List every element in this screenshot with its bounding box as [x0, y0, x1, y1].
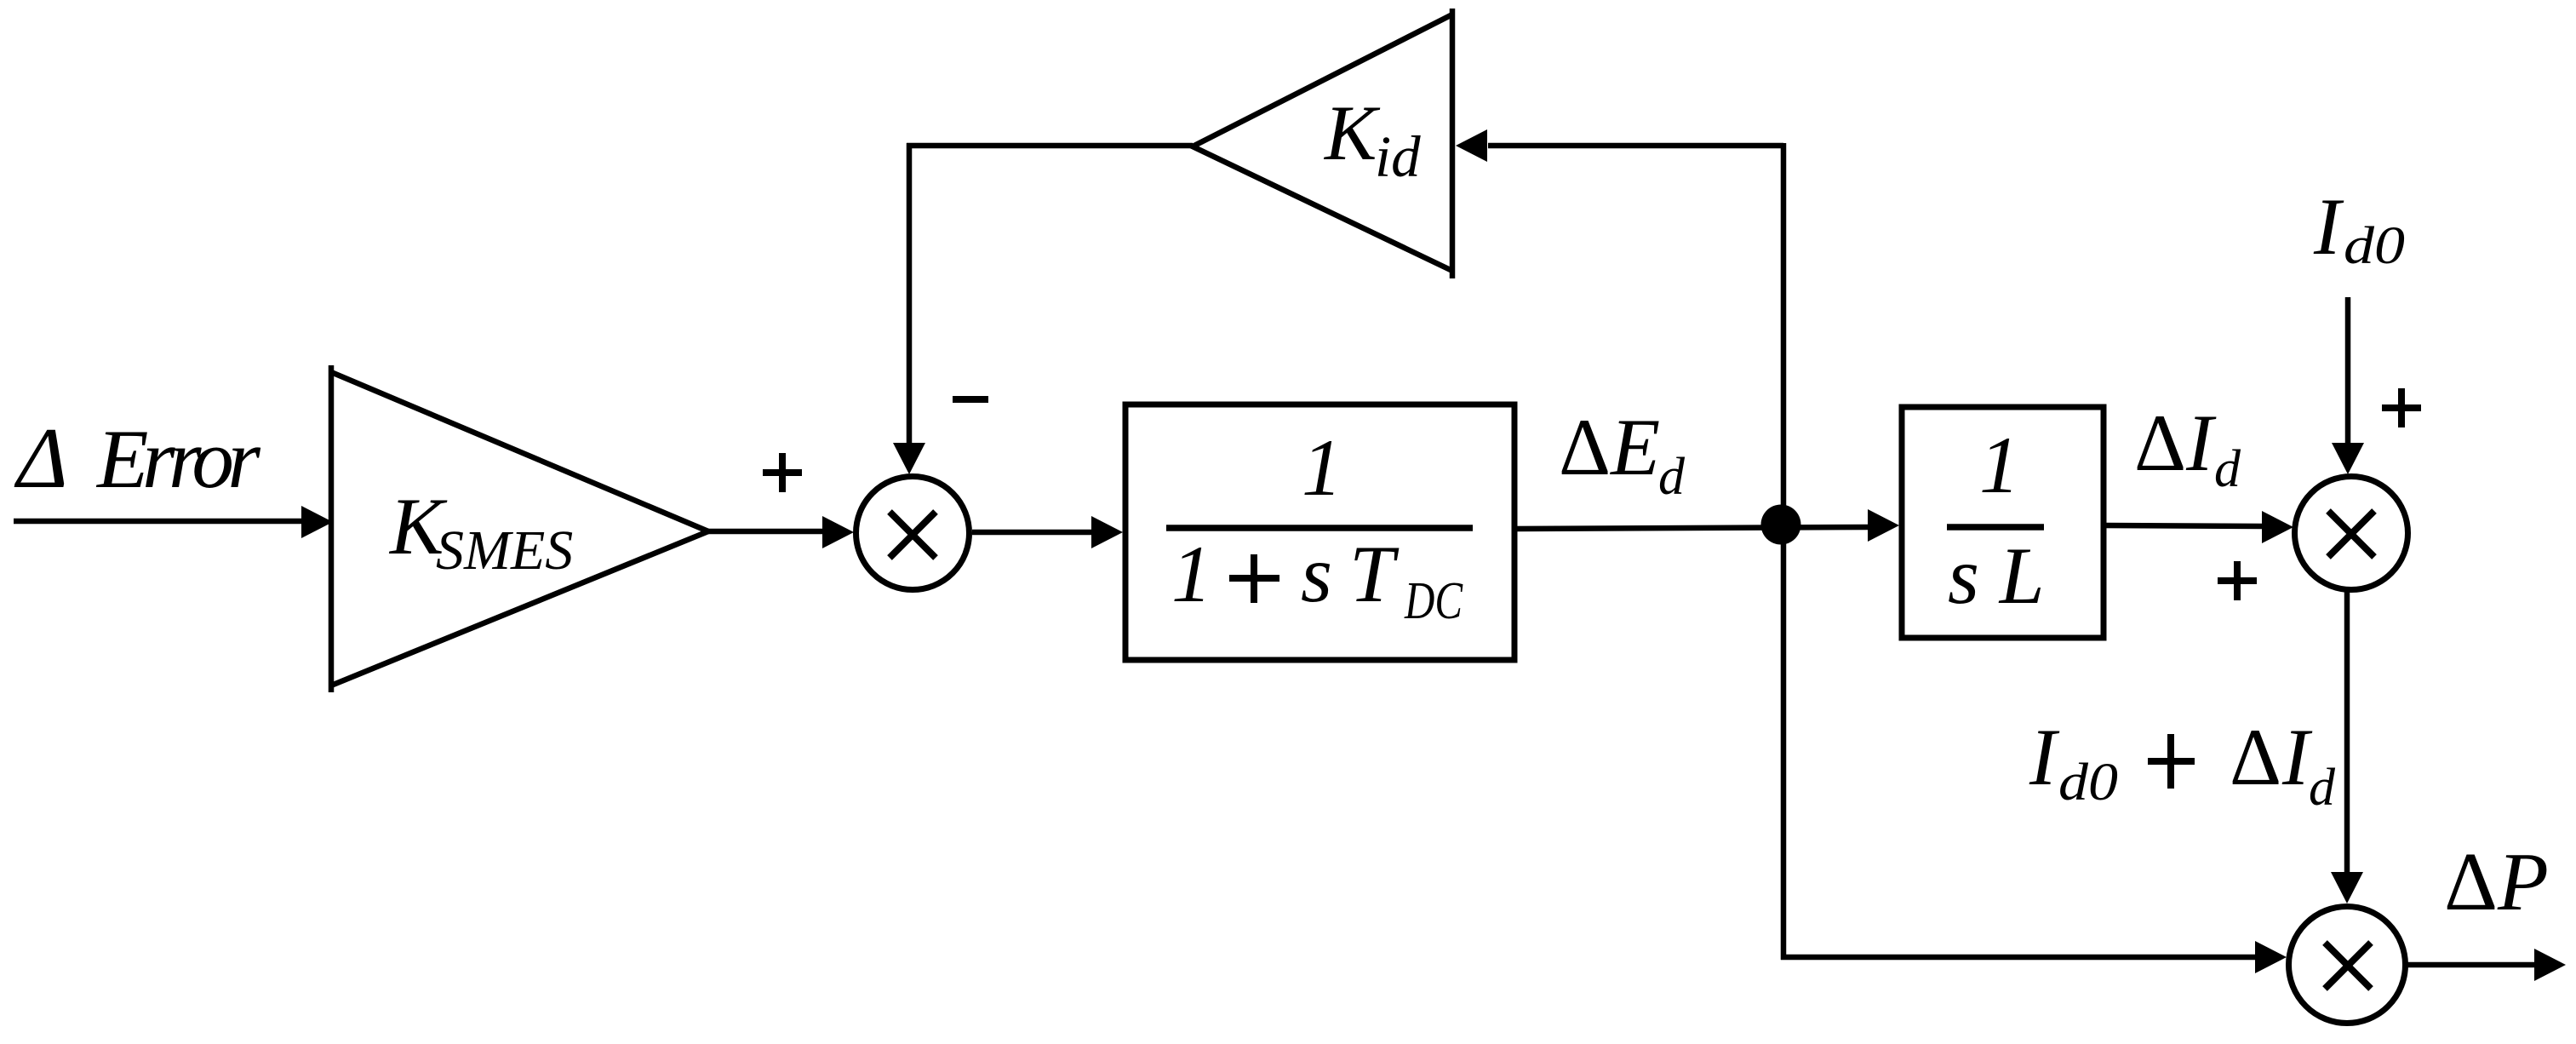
wire feedback top horizontal to K_id apex: [907, 143, 1193, 149]
svg-text:1: 1: [1302, 422, 1342, 513]
node junction dot: [1761, 505, 1801, 545]
multiplier circle X2: [2295, 477, 2408, 590]
wire output arrow Delta P: [2407, 962, 2535, 968]
gain triangle K_id: [1450, 9, 1456, 278]
wire arrow into K_id right edge: [1488, 143, 1783, 149]
gain triangle K_SMES: [329, 365, 335, 692]
wire input arrow into K_SMES: [14, 519, 303, 525]
svg-text:1: 1: [1979, 420, 2020, 510]
svg-text:SMES: SMES: [436, 519, 573, 582]
svg-text:d: d: [2309, 759, 2336, 817]
multiplier circle X3: [2289, 907, 2406, 1024]
wire circle X1 to block 1: [972, 530, 1093, 536]
wire I_d0 vertical arrow into multiplier X2: [2345, 297, 2351, 444]
svg-text:ΔE: ΔE: [1559, 402, 1660, 492]
wire feedback vertical into summing junction: [907, 143, 913, 445]
svg-text:d: d: [2214, 440, 2241, 498]
svg-text:Δ: Δ: [14, 410, 68, 507]
svg-text:d: d: [1658, 448, 1686, 506]
wire K_SMES output to summing junction: [707, 529, 823, 535]
multiplier circle X1 (summing junction): [856, 477, 970, 590]
svg-text:id: id: [1375, 124, 1421, 189]
svg-text:ΔP: ΔP: [2444, 836, 2549, 928]
block 1/(sL): [1902, 407, 2104, 638]
wire bottom horizontal into multiplier X3: [1781, 955, 2257, 961]
svg-text:DC: DC: [1404, 572, 1463, 630]
wire block 1 to node to block 2: [1514, 527, 1869, 529]
plus sign for Delta I_d input: [2218, 577, 2257, 584]
wire multiplier X2 down into multiplier X3: [2344, 590, 2350, 873]
plus sign for I_d0 input: [2382, 404, 2421, 411]
plus sign at summing junction input: [763, 469, 802, 476]
wire block 2 to multiplier X2: [2104, 525, 2263, 526]
wire right vertical from K_id line down to bottom: [1781, 143, 1787, 960]
svg-text:K: K: [1323, 89, 1381, 176]
svg-text:d0: d0: [2344, 217, 2405, 275]
svg-text:d0: d0: [2058, 754, 2118, 812]
svg-text:I: I: [2313, 181, 2344, 272]
svg-text:ΔI: ΔI: [2134, 398, 2217, 488]
svg-text:Error: Error: [95, 413, 260, 506]
block 1/(1+sT_DC): [1125, 404, 1514, 660]
svg-text:s L: s L: [1948, 531, 2045, 621]
minus sign for feedback input: [953, 396, 988, 403]
